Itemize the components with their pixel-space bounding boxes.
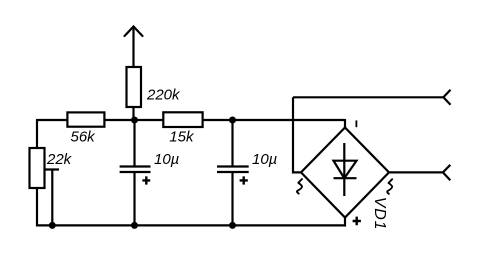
terminal upper fork bbox=[443, 90, 450, 105]
AC tilde left bbox=[297, 179, 302, 194]
wire AC input vertical (crossover, no junction) bbox=[293, 97, 301, 172]
wire left vertical bbox=[36, 119, 38, 227]
resistor R1 220k lead bbox=[132, 26, 134, 120]
terminal lower fork bbox=[443, 165, 450, 180]
diode inside VD1: cathode lead bbox=[343, 143, 345, 196]
svg-text:15k: 15k bbox=[169, 129, 195, 146]
wire top rail bbox=[37, 119, 345, 121]
node junction dot bottom rail / C1 bbox=[131, 222, 138, 229]
node junction dot bottom rail / wiper bbox=[49, 222, 56, 229]
wire lower output bbox=[389, 171, 443, 173]
label plus C1 bbox=[142, 176, 150, 184]
wire bridge bottom stub bbox=[344, 217, 346, 227]
svg-text:VD1: VD1 bbox=[371, 197, 388, 231]
svg-text:56k: 56k bbox=[71, 129, 97, 146]
wire upper output bbox=[293, 96, 443, 98]
diode inside VD1: anode triangle bbox=[334, 161, 357, 179]
capacitor C1 10u top lead bbox=[133, 120, 135, 166]
capacitor C1 bottom lead bbox=[133, 173, 135, 226]
node junction dot top rail / C2 bbox=[229, 117, 236, 124]
AC tilde right bbox=[387, 179, 392, 194]
capacitor C2 bottom lead bbox=[231, 173, 233, 226]
trimmer R4 wiper bbox=[45, 170, 60, 227]
trimmer resistor R4 22k body bbox=[30, 148, 45, 188]
resistor R3 15k body bbox=[163, 112, 202, 127]
capacitor C1 plates bbox=[120, 167, 151, 173]
label plus C2 bbox=[240, 176, 248, 184]
svg-text:10µ: 10µ bbox=[154, 151, 179, 168]
node junction dot bottom rail / C2 bbox=[229, 222, 236, 229]
diode inside VD1: cathode bar bbox=[334, 177, 357, 179]
wire bridge top stub bbox=[344, 119, 346, 128]
svg-text:22k: 22k bbox=[46, 151, 73, 168]
node junction dot top rail / R1 bbox=[131, 117, 138, 124]
resistor R2 56k body bbox=[67, 112, 104, 126]
resistor R1 220k body bbox=[127, 67, 142, 107]
arrow supply bbox=[125, 27, 143, 37]
svg-text:220k: 220k bbox=[146, 87, 181, 104]
capacitor C2 plates bbox=[217, 167, 249, 173]
label minus (bridge top) bbox=[355, 120, 357, 127]
wire bottom rail bbox=[36, 224, 345, 226]
capacitor C2 10u top lead bbox=[231, 120, 233, 166]
label plus (bridge bottom) bbox=[353, 217, 361, 226]
svg-text:10µ: 10µ bbox=[252, 151, 277, 168]
bridge rectifier VD1 diamond bbox=[301, 128, 389, 218]
